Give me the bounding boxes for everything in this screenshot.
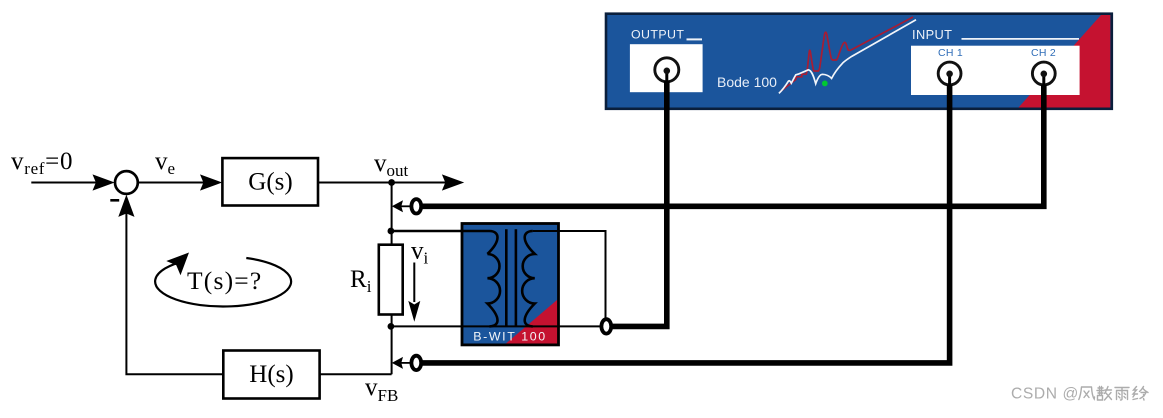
svg-text:OUTPUT: OUTPUT xyxy=(631,28,684,42)
OUTPUT label underline xyxy=(687,38,703,40)
transformer T1 secondary winding xyxy=(522,231,535,326)
coax cable CH1 to vFB tap xyxy=(421,85,950,363)
svg-text:Bode 100: Bode 100 xyxy=(717,74,777,90)
arrowhead into G(s) xyxy=(200,174,222,190)
wire top node to transformer primary xyxy=(391,231,498,254)
coax cable CH2 to vout tap xyxy=(421,85,1044,206)
arrowhead into summing junction xyxy=(93,174,115,190)
OUTPUT connector plate xyxy=(630,44,703,92)
svg-text:CH 2: CH 2 xyxy=(1031,47,1056,59)
svg-text:B-WIT 100: B-WIT 100 xyxy=(473,330,546,344)
watermark CSDN xyxy=(1011,386,1148,403)
INPUT connector plate xyxy=(911,46,1080,95)
arrowhead vout output xyxy=(442,174,464,190)
wire bottom rail node to injection ring xyxy=(391,325,601,327)
svg-text:CSDN @: CSDN @ xyxy=(1011,386,1079,403)
wire vref input xyxy=(31,182,99,184)
arrowhead loop ellipse xyxy=(166,253,189,276)
red corner decoration on panel xyxy=(1019,15,1111,108)
wire H(s) to feedback riser xyxy=(126,212,223,374)
wire vFB to H(s) xyxy=(320,373,392,375)
transformer T1 primary winding xyxy=(487,254,500,326)
transformer B-WIT 100 body xyxy=(462,224,559,345)
node above Ri xyxy=(388,228,395,235)
INPUT label underline xyxy=(962,38,1080,40)
coax cable OUTPUT to injection ring xyxy=(612,81,667,326)
svg-text:INPUT: INPUT xyxy=(912,27,952,42)
node below Ri xyxy=(388,323,395,330)
CH1 BNC connector xyxy=(938,62,961,85)
wire vout output stub xyxy=(392,182,449,184)
OUTPUT BNC connector xyxy=(655,58,679,82)
red corner of B-WIT xyxy=(504,298,559,345)
green indicator LED xyxy=(822,81,828,87)
Bode 100 logo curve (red) xyxy=(780,17,913,92)
resistor Ri xyxy=(379,245,403,315)
summing junction S1 xyxy=(115,171,138,194)
BNC ring CH1 tap xyxy=(411,356,421,370)
svg-text:G(s): G(s) xyxy=(248,168,292,195)
arrowhead feedback into summing junction xyxy=(118,195,134,217)
wire vout vertical down to vFB xyxy=(391,183,393,375)
arrowhead CH1 tap pointing into vFB line xyxy=(400,362,412,364)
block G(s) xyxy=(222,158,318,205)
wire G(s) to vout node xyxy=(318,182,392,184)
node vout xyxy=(388,179,395,186)
arrow vi (current direction) xyxy=(413,263,415,303)
wire summing junction to G(s) xyxy=(138,182,207,184)
wire secondary top to BNC ring xyxy=(533,231,606,320)
svg-text:CH 1: CH 1 xyxy=(938,47,963,59)
arrowhead CH2 tap pointing into vout line xyxy=(400,205,412,207)
transformer core xyxy=(505,229,508,326)
hanzi watermark glyphs xyxy=(1079,387,1148,401)
Bode 100 logo curve (white) xyxy=(779,20,916,94)
minus sign at summing junction xyxy=(110,199,119,202)
loop gain ellipse T(s) xyxy=(155,258,291,307)
BNC ring CH2 tap xyxy=(411,199,421,213)
Bode 100 instrument U1 front panel xyxy=(606,14,1112,109)
BNC ring injection xyxy=(601,319,611,333)
CH2 BNC connector xyxy=(1032,62,1055,85)
block H(s) xyxy=(223,351,319,399)
svg-text:H(s): H(s) xyxy=(249,361,293,388)
svg-text:T(s)=?: T(s)=? xyxy=(187,266,262,295)
